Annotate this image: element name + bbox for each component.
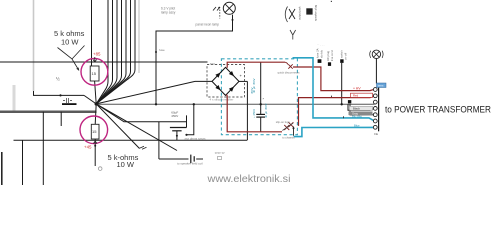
svg-text:FE: FE xyxy=(374,132,378,136)
svg-text:+: + xyxy=(240,73,243,78)
svg-text:output jack: output jack xyxy=(298,6,302,20)
svg-text:+45: +45 xyxy=(84,144,92,149)
svg-text:to speaker field coil: to speaker field coil xyxy=(177,162,203,166)
svg-text:450V: 450V xyxy=(250,87,254,94)
svg-text:450V: 450V xyxy=(171,114,178,118)
svg-text:lamp assy: lamp assy xyxy=(161,11,176,15)
svg-text:term: term xyxy=(378,84,384,88)
svg-text:½: ½ xyxy=(56,76,60,82)
svg-text:40 µF 450V: 40 µF 450V xyxy=(264,103,268,118)
svg-text:slo-blo: slo-blo xyxy=(320,49,324,58)
svg-text:Blu-Wht: Blu-Wht xyxy=(352,115,362,119)
svg-text:to chassis: to chassis xyxy=(282,136,295,140)
svg-text:+85: +85 xyxy=(93,51,101,56)
svg-text:×: × xyxy=(263,97,265,101)
svg-text:xxx ohms xxxxx: xxx ohms xxxxx xyxy=(185,137,207,141)
svg-text:. . .: . . . xyxy=(321,43,325,47)
svg-text:Black: Black xyxy=(353,107,360,111)
svg-text:to POWER TRANSFORMER: to POWER TRANSFORMER xyxy=(385,104,491,115)
svg-text:10 W: 10 W xyxy=(117,160,135,169)
svg-text:panel neon lamp: panel neon lamp xyxy=(196,23,220,27)
svg-text:slip-on lugs: slip-on lugs xyxy=(276,120,291,124)
svg-text:fuse: fuse xyxy=(159,48,165,52)
svg-text:BR1: BR1 xyxy=(210,62,216,66)
svg-text:line cord: line cord xyxy=(330,50,334,61)
svg-text:quick disconnects: quick disconnects xyxy=(278,70,301,74)
svg-text:on-off: on-off xyxy=(344,53,348,60)
svg-text:+ 450V: + 450V xyxy=(252,109,256,118)
svg-text:speaker plug: speaker plug xyxy=(314,5,318,21)
svg-text:15: 15 xyxy=(92,71,97,76)
svg-text:4 x silicon rectifier: 4 x silicon rectifier xyxy=(210,97,234,101)
svg-text:yyyy yy: yyyy yy xyxy=(215,151,225,155)
svg-text:Blue: Blue xyxy=(354,124,360,128)
svg-text:www.elektronik.si: www.elektronik.si xyxy=(206,174,290,185)
svg-text:Red: Red xyxy=(353,94,359,98)
svg-text:10 W: 10 W xyxy=(61,38,79,47)
svg-text:+ HV: + HV xyxy=(353,87,361,91)
svg-text:15: 15 xyxy=(92,129,97,134)
svg-text:. .: . . xyxy=(317,42,320,46)
